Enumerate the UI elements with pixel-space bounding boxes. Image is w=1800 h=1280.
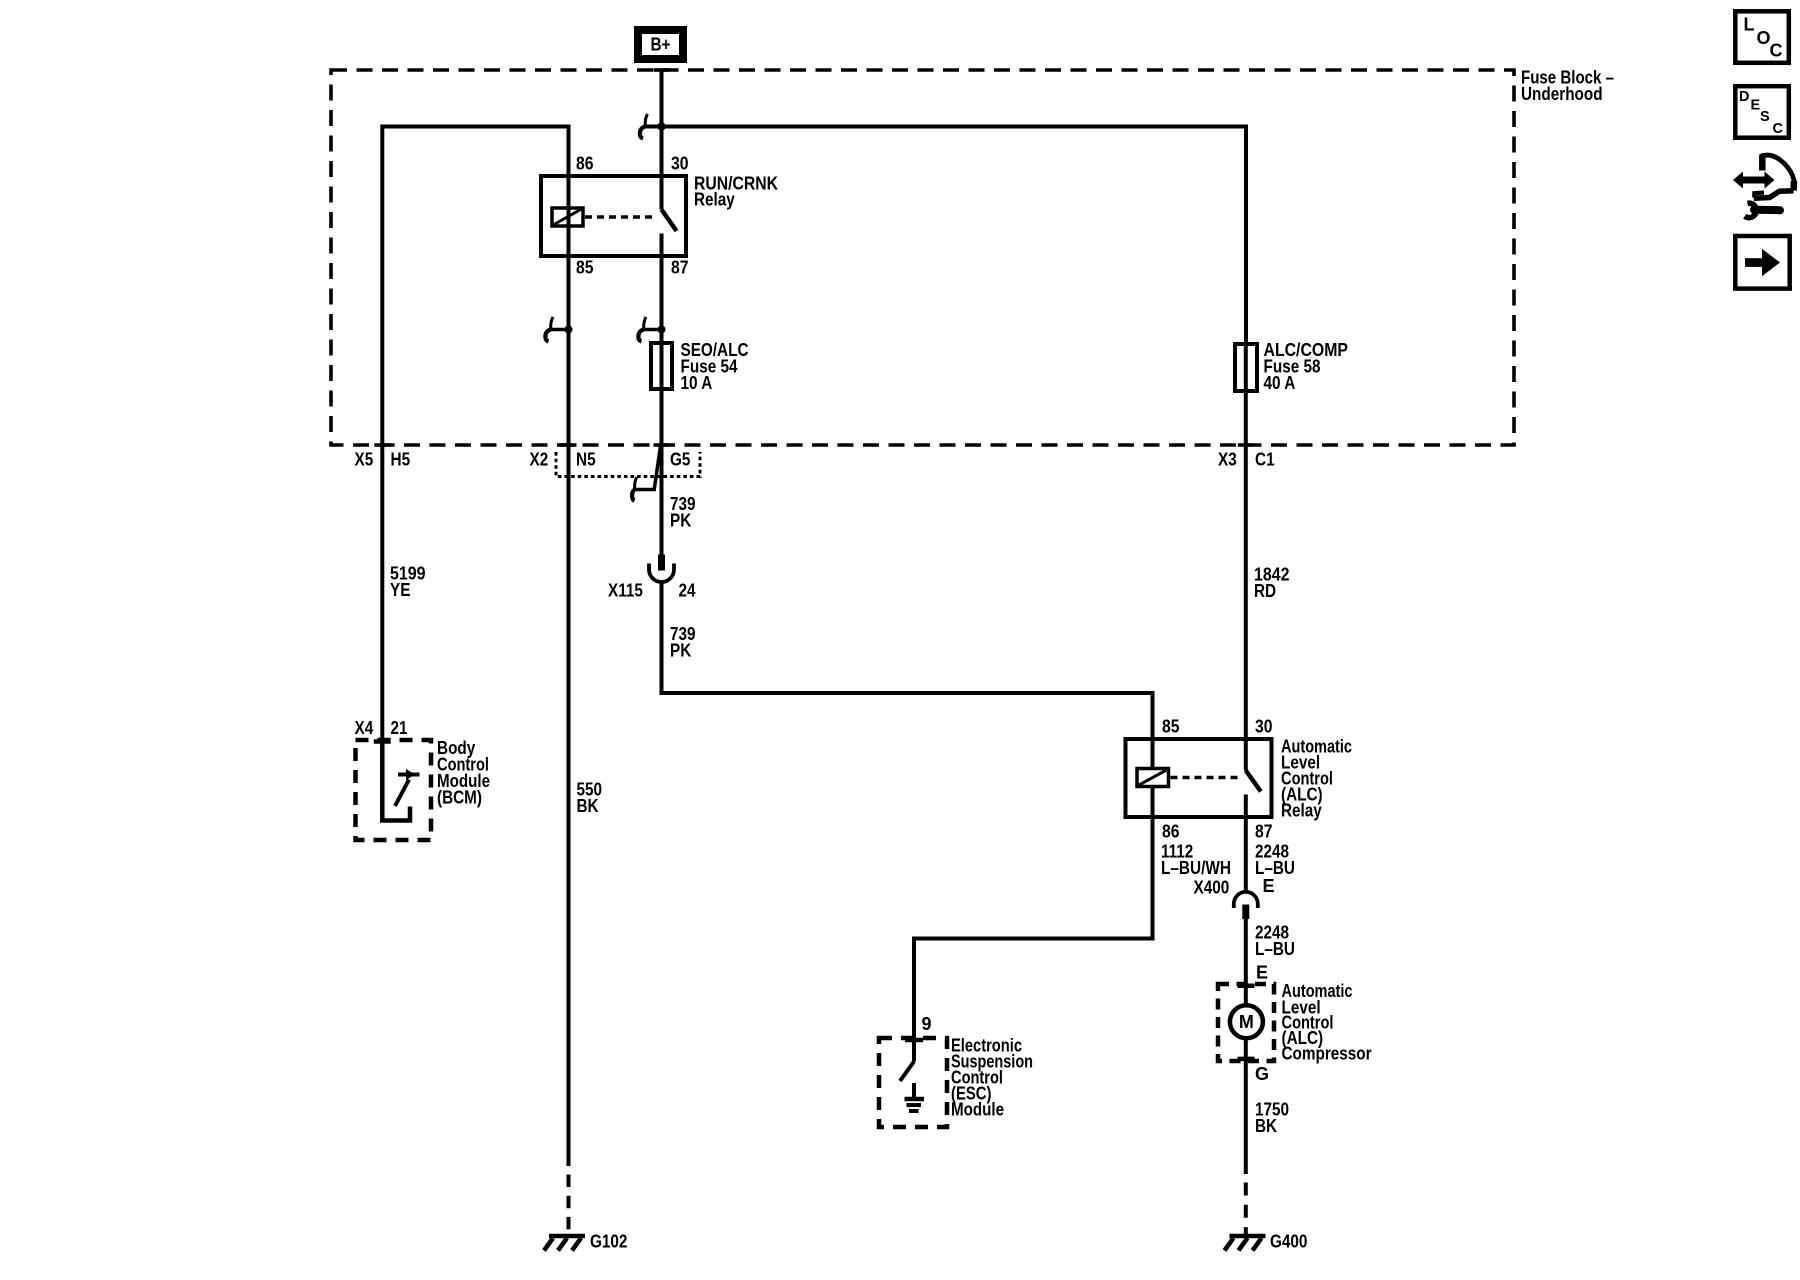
ESC internal switch to ground xyxy=(900,1038,924,1111)
svg-text:10 A: 10 A xyxy=(681,373,713,393)
connector G5 branch with clip xyxy=(632,444,661,501)
svg-text:87: 87 xyxy=(1255,822,1273,842)
fuse ALC/COMP Fuse 58 xyxy=(1235,344,1257,391)
relay RUN/CRNK switch lever xyxy=(662,210,677,257)
svg-text:Relay: Relay xyxy=(694,190,735,210)
svg-text:C: C xyxy=(1770,41,1783,61)
svg-text:L–BU/WH: L–BU/WH xyxy=(1161,858,1231,878)
svg-text:Compressor: Compressor xyxy=(1282,1043,1372,1063)
label: Electronic Suspension Control (ESC) Module xyxy=(951,1036,1033,1120)
inline connector X115 xyxy=(649,555,674,583)
svg-text:S: S xyxy=(1760,109,1770,125)
label: Body Control Module (BCM) xyxy=(437,738,490,808)
icon: vehicle direction with double arrow and wrench xyxy=(1733,155,1795,218)
svg-text:L: L xyxy=(1744,15,1755,35)
relay ALC dashed link xyxy=(1171,776,1239,780)
icon: LOC box xyxy=(1735,11,1789,63)
icon: arrow box xyxy=(1735,236,1789,289)
labels: X4 21 xyxy=(355,718,408,738)
module BCM dashed box xyxy=(356,740,432,840)
wire: 739 PK fuse 54 drop xyxy=(660,256,664,555)
relay RUN/CRNK dashed link xyxy=(585,215,652,219)
svg-text:G: G xyxy=(1255,1064,1269,1084)
label: 550 BK xyxy=(577,780,603,817)
svg-text:G102: G102 xyxy=(590,1232,627,1252)
svg-text:C1: C1 xyxy=(1255,450,1275,470)
label: 739 PK lower xyxy=(670,624,696,661)
power symbol B+ xyxy=(638,30,683,59)
wire: 550 BK from pin 85 down xyxy=(567,256,571,1166)
svg-text:30: 30 xyxy=(671,154,689,174)
label: Automatic Level Control (ALC) Relay xyxy=(1281,737,1352,821)
svg-text:86: 86 xyxy=(576,154,594,174)
fuse SEO/ALC Fuse 54 xyxy=(651,343,672,389)
ground G102 symbol xyxy=(544,1236,585,1251)
svg-text:B+: B+ xyxy=(651,35,671,55)
svg-text:N5: N5 xyxy=(576,450,596,470)
label: 1842 RD xyxy=(1254,565,1290,602)
svg-text:24: 24 xyxy=(679,581,696,601)
clip symbol on 550 BK wire xyxy=(545,317,572,342)
wire: ALC coil pin 86 down and over to ESC xyxy=(914,787,1153,1038)
svg-text:E: E xyxy=(1256,963,1268,983)
svg-text:C: C xyxy=(1773,121,1784,137)
svg-text:PK: PK xyxy=(670,641,691,661)
wire: compressor to G400 solid then dashed xyxy=(1244,1038,1248,1236)
relay RUN/CRNK pin labels xyxy=(576,154,689,278)
fuse block underhood dashed boundary xyxy=(331,70,1514,445)
svg-text:BK: BK xyxy=(1255,1116,1277,1136)
label: Automatic Level Control (ALC) Compressor xyxy=(1282,981,1372,1063)
label: 739 PK upper xyxy=(670,494,696,531)
wire: X400 down to compressor xyxy=(1244,919,1248,1005)
clip symbol at B+ junction xyxy=(640,114,648,139)
svg-text:X400: X400 xyxy=(1194,878,1230,898)
junction dot xyxy=(657,122,665,130)
svg-text:Module: Module xyxy=(951,1100,1004,1120)
label: RUN/CRNK Relay xyxy=(694,174,778,210)
label: Fuse Block - Underhood xyxy=(1521,68,1614,105)
svg-text:X3: X3 xyxy=(1218,450,1237,470)
wire: junction down to RUN/CRNK relay pin 30 xyxy=(660,127,664,210)
wire: 739 PK from X115 over to ALC relay pin 85 xyxy=(662,582,1153,769)
svg-text:X115: X115 xyxy=(608,581,643,601)
svg-text:L–BU: L–BU xyxy=(1255,858,1295,878)
svg-text:X4: X4 xyxy=(355,718,374,738)
relay ALC pin labels xyxy=(1162,717,1273,842)
wire: B+ down to junction xyxy=(660,72,664,127)
BCM internal switch xyxy=(382,740,419,821)
svg-text:85: 85 xyxy=(1162,717,1180,737)
svg-text:85: 85 xyxy=(576,258,594,278)
wire: left branch from BCM up and over to RUN/CRNK pin 86 xyxy=(382,127,568,741)
label: SEO/ALC Fuse 54 10 A xyxy=(681,340,749,393)
relay RUN/CRNK coil xyxy=(552,208,583,226)
svg-text:X2: X2 xyxy=(530,450,549,470)
svg-text:D: D xyxy=(1739,89,1749,105)
wire: 1842 RD down to ALC relay pin 30 xyxy=(1244,344,1248,771)
module ALC compressor dashed box xyxy=(1218,984,1274,1061)
svg-text:BK: BK xyxy=(577,796,599,816)
relay RUN/CRNK box xyxy=(541,176,686,256)
wire: 550 BK dashed tail to G102 xyxy=(567,1175,571,1235)
svg-text:YE: YE xyxy=(390,580,410,600)
relay ALC box xyxy=(1126,739,1272,817)
svg-text:G400: G400 xyxy=(1270,1232,1307,1252)
relay ALC coil xyxy=(1137,769,1169,787)
svg-text:87: 87 xyxy=(671,258,689,278)
svg-text:Relay: Relay xyxy=(1281,801,1322,821)
label: 5199 YE xyxy=(390,564,426,601)
compressor motor M xyxy=(1230,1005,1263,1038)
wire: main feed junction horizontal to ALC fuse drop xyxy=(644,127,1246,345)
svg-text:O: O xyxy=(1757,28,1771,48)
svg-text:30: 30 xyxy=(1255,717,1273,737)
connector X2 dotted box xyxy=(556,452,700,477)
svg-text:(BCM): (BCM) xyxy=(437,788,482,808)
svg-text:X5: X5 xyxy=(355,450,374,470)
inline connector X400 xyxy=(1234,892,1258,919)
svg-text:RD: RD xyxy=(1254,581,1276,601)
svg-text:40 A: 40 A xyxy=(1264,373,1296,393)
label: 1112 L-BU/WH xyxy=(1161,842,1231,879)
svg-text:Underhood: Underhood xyxy=(1521,84,1603,104)
svg-text:E: E xyxy=(1751,98,1761,114)
label: ALC/COMP Fuse 58 40 A xyxy=(1264,340,1349,393)
svg-text:H5: H5 xyxy=(391,450,411,470)
svg-text:PK: PK xyxy=(670,511,691,531)
label: 1750 BK xyxy=(1255,1100,1289,1137)
svg-text:M: M xyxy=(1239,1012,1254,1032)
labels: X5 H5 X2 N5 G5 X3 C1 xyxy=(355,450,1275,470)
ground G400 symbol xyxy=(1225,1236,1266,1251)
svg-text:G5: G5 xyxy=(670,450,690,470)
wire: ALC relay pin 87 down to X400 xyxy=(1244,817,1248,893)
svg-text:9: 9 xyxy=(922,1014,932,1034)
svg-text:86: 86 xyxy=(1162,822,1180,842)
svg-text:L–BU: L–BU xyxy=(1255,939,1295,959)
module ESC dashed box xyxy=(879,1038,947,1127)
labels: X115 24 xyxy=(608,581,696,601)
label: 2248 L-BU upper, E xyxy=(1255,842,1295,897)
svg-text:21: 21 xyxy=(391,718,408,738)
icon: DESC box xyxy=(1735,86,1789,138)
relay ALC switch lever xyxy=(1246,771,1261,818)
svg-text:E: E xyxy=(1263,876,1275,896)
clip symbol on fuse 54 wire xyxy=(638,317,665,342)
label: 2248 L-BU lower, E xyxy=(1255,923,1295,983)
